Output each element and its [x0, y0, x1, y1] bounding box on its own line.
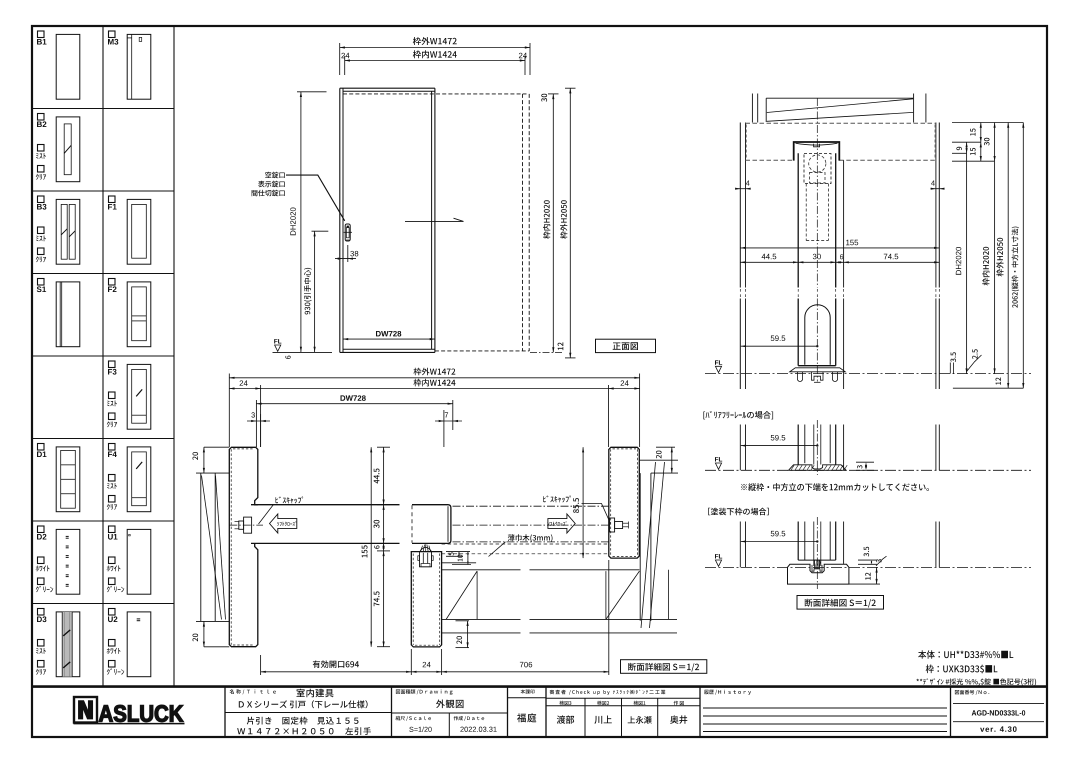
style cell M3 — [109, 31, 116, 38]
version — [980, 726, 1017, 732]
vsec floor rail profile — [790, 368, 845, 372]
vsec door slab verticals — [797, 153, 799, 287]
plan softclose arrow left — [270, 514, 297, 533]
detail2 label box 断面詳細図 S=1/2 — [797, 596, 884, 610]
vsec dim 44.5/30/6/74.5 — [740, 261, 939, 263]
history rule lines — [703, 707, 947, 709]
vsec door center dashdot — [816, 98, 818, 288]
detail1 dim 59.5 — [741, 445, 818, 447]
plan dim 20 top right — [656, 446, 675, 448]
detail1 barrier-free rail — [789, 465, 847, 471]
plan skirting 薄巾木 hidden lines — [442, 543, 608, 545]
front view dim 38 handle — [342, 249, 344, 263]
title cell divider — [225, 712, 392, 714]
style cell F1 — [109, 196, 116, 203]
front view opening dashed verticals — [522, 94, 524, 351]
plan middle stile latch assembly — [420, 552, 432, 567]
approval cell 福庭 — [521, 689, 535, 694]
detail1 right wall — [935, 425, 937, 471]
vsec dim 4 right — [931, 188, 945, 190]
plan dims 5 and 10 at stile — [446, 551, 470, 553]
vsec header 上枠 dashed edges — [746, 122, 936, 124]
detail2 right wall — [935, 522, 937, 568]
product code legend — [916, 678, 1036, 685]
detail1 door guide pair — [813, 425, 815, 465]
vsec right dims ticks — [952, 122, 1023, 124]
detail1 door centerline — [816, 420, 818, 475]
vsec dim 2062 縦枠中方立 — [1022, 123, 1024, 389]
vsec dim 59.5 — [741, 345, 818, 347]
plan right wall hatch diagonals — [641, 462, 656, 628]
plan dim 20 bottom left — [204, 646, 229, 648]
detail2 dim 59.5 — [741, 541, 818, 543]
plan right frame hidden dashes — [610, 449, 612, 556]
style cell U1 — [109, 526, 116, 533]
plan right wall lines — [639, 473, 641, 621]
plan label ビスキャップ right — [543, 496, 571, 503]
vsec wall left — [739, 123, 741, 288]
plan door slab centerline dashdot right — [453, 505, 609, 507]
plan door slab end cap — [412, 505, 451, 544]
plan center vertical dim 155 — [370, 447, 372, 647]
plan dim DW728 — [255, 400, 257, 447]
front view handle 引手 — [345, 224, 350, 241]
plan label 薄巾木(3mm) — [508, 534, 553, 542]
plan dim 枠内W1424 and 24s — [260, 385, 262, 447]
vsec dim 枠内H2020 — [994, 161, 996, 373]
title cell 名称/Title header — [230, 689, 276, 694]
plan dim 20 top left — [204, 446, 229, 448]
vsec floor dashdot FL line — [705, 373, 1031, 375]
plan right frame screw — [610, 518, 615, 532]
vsec bottom guide arch — [805, 305, 830, 365]
plan lower wall left diagonal — [446, 571, 477, 619]
detail1 note 12mm cut — [741, 483, 929, 491]
detail2 door slab — [797, 522, 799, 561]
plan dim 3 — [260, 414, 262, 447]
detail2 left wall — [739, 522, 741, 568]
plan label box 断面詳細図 S=1/2 — [621, 660, 707, 674]
vsec dim 4 left — [736, 188, 751, 190]
style cell U2 — [109, 609, 116, 616]
detail2 door centerline — [816, 517, 818, 589]
checker sub headers — [559, 701, 571, 706]
vsec dim 155 — [740, 247, 939, 249]
detail2 dim 3.5 — [858, 559, 877, 561]
detail2 sill door guide pin — [815, 560, 820, 569]
style cell F2 — [109, 279, 116, 286]
front view dim 930 引手中心 — [312, 230, 329, 232]
vsec frame face line — [843, 160, 845, 287]
title block vertical dividers — [224, 687, 226, 737]
style cell D1 — [38, 444, 45, 451]
vsec dim 3.5 and 2.5 — [949, 363, 951, 374]
front view dim 30 top right — [541, 94, 547, 102]
front view floor dashdot right — [530, 352, 562, 354]
plan dim 85.5 — [582, 447, 584, 558]
number cell header 図面番号/No. — [955, 690, 989, 695]
plan dim 有効開口694 — [260, 655, 262, 675]
plan left frame screw ビスキャップ — [229, 524, 263, 526]
vsec dim 9 — [966, 142, 968, 153]
style cell B3 — [38, 196, 45, 203]
front view top track hidden line — [343, 93, 527, 95]
vsec FL marker — [715, 360, 722, 364]
title cell W1472 — [237, 727, 371, 735]
front view dim 枠外W1472 top — [340, 47, 530, 49]
plan middle stile latch crown — [420, 544, 430, 551]
vsec structure above header — [751, 94, 753, 123]
product code 枠 — [926, 665, 998, 674]
front view door frame left stile — [339, 88, 341, 352]
style cell B1 — [38, 31, 45, 38]
style cell D3 — [38, 609, 45, 616]
front view slide direction arrow — [405, 220, 464, 222]
plan dim 7 — [443, 410, 445, 447]
plan left frame hidden dashes — [230, 449, 232, 645]
front view dim 12 bottom right — [558, 342, 564, 350]
product code 本体 — [918, 650, 1013, 659]
style cell B2 — [38, 114, 45, 121]
plan lower wall line 619.4 — [442, 618, 521, 620]
front view dim 枠内W1424 — [345, 60, 525, 62]
vsec dim 12 bottom — [953, 387, 1023, 389]
vsec wall right — [935, 123, 937, 288]
front view bottom dashed threshold — [435, 350, 529, 352]
detail1 label バリアフリーレールの場合 — [703, 411, 773, 419]
plan middle stile hidden dashes — [412, 554, 414, 646]
front view label box 正面図 — [596, 339, 656, 352]
drawing cell 外観図 — [436, 700, 464, 709]
front view lock labels — [265, 172, 285, 178]
plan left wall hatch diagonals — [202, 476, 222, 620]
NASLUCK logo — [74, 697, 97, 723]
plan dim 20 bottom middle — [456, 620, 470, 622]
plan lower wall right diagonal — [606, 571, 640, 619]
front view door top rail — [340, 87, 435, 89]
detail2 dim 3 leader — [876, 556, 887, 566]
detail1 floor dashdot — [705, 469, 1031, 471]
plan softclose arrow right — [548, 514, 575, 533]
front view FL marker — [274, 339, 281, 343]
style cell F4 — [109, 444, 116, 451]
front view dim DH2020 — [297, 91, 327, 93]
plan left wall lines — [200, 473, 202, 621]
plan middle stile 中方立 — [411, 552, 441, 647]
title cell 片引き — [247, 717, 359, 725]
vsec top track レール — [794, 142, 840, 161]
plan right frame 縦枠 — [609, 447, 640, 558]
drawing cell header 図面種類/Drawing — [396, 689, 453, 694]
detail2 door guide pair — [813, 522, 815, 567]
plan label ビスキャップ left — [276, 497, 304, 504]
plan door slab — [251, 504, 400, 506]
plan right wall horizontals — [639, 459, 678, 461]
date cell — [454, 716, 485, 721]
front view door panel right edge — [431, 91, 433, 349]
plan left wall edge horizontals — [196, 472, 229, 474]
title cell 室内建具 — [297, 689, 334, 698]
front view right dim 枠外H2050 — [565, 87, 576, 89]
vsec roller assembly hidden — [809, 155, 826, 172]
style cell S1 — [38, 279, 45, 286]
vsec door bottom edge — [798, 365, 836, 367]
detail1 left wall — [739, 425, 741, 471]
history cell header — [704, 690, 751, 695]
detail2 FL marker — [715, 554, 722, 558]
scale cell — [396, 716, 431, 721]
checkers header — [550, 690, 666, 695]
title cell DXシリーズ — [239, 700, 368, 708]
plan lower wall line 562.8 — [442, 562, 477, 564]
front view dim DW728 bottom — [343, 338, 435, 340]
checker names — [557, 715, 574, 723]
detail1 FL marker — [715, 457, 722, 461]
title block top border — [32, 685, 1047, 688]
detail2 dim 12 — [849, 583, 880, 585]
style cell D2 — [38, 526, 45, 533]
style grid column lines — [102, 26, 104, 687]
front view right dim 枠内H2020 — [548, 93, 559, 95]
front view dim 6 — [285, 356, 290, 359]
plan lower wall face line — [442, 569, 521, 571]
detail2 floor dashdot — [705, 566, 1031, 568]
vsec dim 30 — [994, 123, 996, 162]
style grid row lines — [32, 108, 174, 110]
plan lower wall line 632.9 — [442, 632, 521, 634]
plan center vertical dim 44.5/30/6/74.5 — [383, 447, 385, 647]
detail2 label 塗装下枠の場合 — [708, 508, 769, 516]
front view lock leader line — [286, 175, 345, 221]
vsec dim DH2020 — [966, 153, 968, 373]
style cell F3 — [109, 361, 116, 368]
front view floor line left — [273, 351, 333, 353]
plan left frame 縦枠 profile — [229, 447, 257, 646]
vsec dim 15/15 — [980, 123, 982, 162]
front view door bottom rail — [340, 351, 435, 353]
vsec dim 枠外H2050 — [1007, 123, 1009, 389]
detail1 door slab — [797, 425, 799, 465]
detail1 dim 3 — [856, 461, 874, 463]
drawing number — [972, 710, 1025, 715]
detail2 painted sill 塗装下枠 — [788, 564, 849, 584]
plan dim 枠外W1472 — [229, 377, 639, 379]
